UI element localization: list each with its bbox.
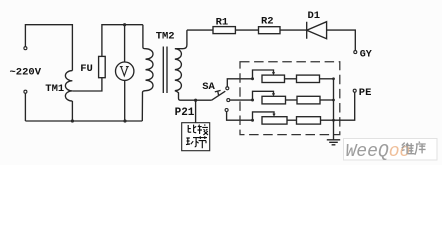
- row1 resistor A: [262, 75, 285, 82]
- wire TM1 tap to fuse bottom: [72, 78, 102, 91]
- resistor R2: [259, 27, 281, 34]
- terminal circle PE: [353, 89, 356, 92]
- row3 resistor A: [262, 117, 287, 124]
- wire contact2 to row2: [230, 99, 252, 101]
- row2 bus junction: [332, 99, 335, 102]
- wire contact1 to row1: [227, 79, 252, 87]
- row1 junction: [251, 77, 254, 80]
- svg-text:~220V: ~220V: [10, 67, 42, 79]
- terminal circle L1: [24, 47, 27, 50]
- voltmeter U-V body: [116, 62, 134, 80]
- wire top-left from L1 terminal up and across to TM1: [25, 25, 72, 71]
- svg-text:R2: R2: [261, 16, 274, 28]
- row1 wire to bus: [320, 78, 334, 80]
- wire P21 node down to comparison box: [195, 100, 197, 123]
- wire left vertical below L2 terminal: [24, 94, 26, 122]
- row3 wire A-B: [287, 119, 297, 121]
- wire D1 to GY terminal: [327, 30, 356, 50]
- switch SA arm: [212, 90, 226, 100]
- row2 tap arrowhead: [272, 93, 275, 96]
- comparison block glyphs 比较环节: [186, 124, 208, 148]
- wire voltmeter top lead: [124, 25, 126, 62]
- wire contact3 to row3: [227, 112, 253, 120]
- switch contact 3: [225, 109, 228, 112]
- svg-text:SA: SA: [202, 81, 215, 93]
- switch contact 1: [226, 87, 229, 90]
- row1 slider tap wire: [253, 70, 274, 79]
- transformer TM1 winding: [65, 71, 72, 121]
- fuse FU body: [99, 56, 106, 77]
- row2 slider tap wire: [253, 91, 274, 100]
- switch contact 2: [227, 99, 230, 102]
- row1 tap arrowhead: [272, 72, 275, 75]
- row3 junction: [251, 119, 254, 122]
- watermark panel: [344, 139, 438, 163]
- transformer TM2 secondary winding: [175, 30, 212, 100]
- row1 resistor B: [297, 75, 320, 82]
- wire voltmeter bottom lead: [124, 80, 126, 121]
- row2 wire to bus: [320, 99, 334, 101]
- junction TM1 bottom: [71, 119, 74, 122]
- svg-text:PE: PE: [359, 87, 372, 99]
- row3 slider tap wire: [253, 112, 275, 120]
- svg-text:WeeQoo: WeeQoo: [346, 142, 411, 162]
- ground symbol: [327, 140, 340, 145]
- junction top bus V tap: [123, 23, 126, 26]
- wire bottom bus: [25, 120, 142, 122]
- row3 bus junction: [332, 119, 335, 122]
- diode D1: [307, 22, 327, 39]
- bus vertical to ground: [333, 79, 335, 140]
- voltmeter V letter: [120, 67, 129, 76]
- row3 tap arrowhead: [272, 114, 275, 117]
- row2 junction: [251, 99, 254, 102]
- row2 wire A-B: [286, 99, 298, 101]
- wire fuse top lead: [102, 25, 143, 57]
- wire R1 to R2: [235, 29, 258, 31]
- dashed resistor bank box: [240, 62, 340, 135]
- transformer TM2 core: [163, 47, 167, 94]
- resistor R1: [213, 27, 235, 34]
- svg-text:TM2: TM2: [156, 30, 175, 42]
- svg-text:GY: GY: [360, 50, 372, 61]
- row3 resistor B: [297, 117, 321, 124]
- row3 wire to bus and PE riser: [321, 92, 355, 120]
- wire TM2 secondary top to R1: [187, 29, 213, 31]
- junction voltmeter bottom: [123, 119, 126, 122]
- row2 resistor B: [297, 96, 320, 104]
- row2 resistor A: [262, 96, 286, 104]
- transformer TM2 primary winding: [142, 25, 153, 121]
- terminal circle GY: [354, 51, 357, 54]
- svg-text:R1: R1: [216, 17, 229, 29]
- comparison block box: [182, 123, 210, 151]
- svg-text:TM1: TM1: [45, 83, 64, 95]
- svg-text:FU: FU: [80, 63, 93, 75]
- svg-text:D1: D1: [308, 10, 321, 22]
- svg-text:P21: P21: [175, 107, 195, 119]
- junction P21 node: [194, 99, 197, 102]
- terminal circle L2: [24, 90, 27, 93]
- row1 bus junction: [332, 77, 335, 80]
- wire R2 to D1: [280, 29, 307, 31]
- row1 wire A-B: [285, 78, 297, 80]
